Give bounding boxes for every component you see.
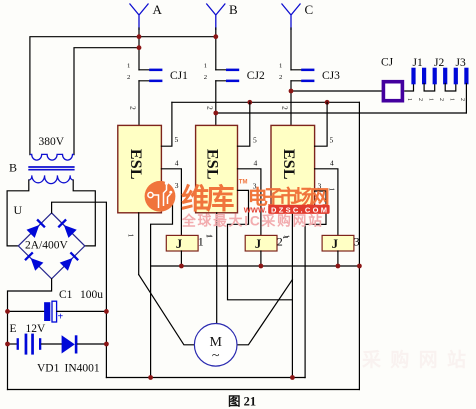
junction dot pin5 bus LSE2 [247,100,252,105]
svg-text:ESL: ESL [127,149,144,180]
svg-text:1: 1 [449,98,455,101]
svg-text:2: 2 [127,74,130,81]
wire J1 bottom [180,251,182,266]
wire rail end up [304,377,306,379]
svg-text:2: 2 [277,235,283,249]
svg-text:3: 3 [354,235,360,249]
svg-text:B: B [229,2,238,17]
svg-text:C: C [305,2,314,17]
bridge diode upper-right [58,220,76,238]
battery E [8,334,62,355]
svg-text:J2: J2 [434,57,444,69]
junction dot battery left [5,342,10,347]
contact J2 [433,68,448,85]
bridge rectifier U diamond [18,213,85,279]
wire J2 bottom [260,251,262,266]
contact J1 [411,68,426,85]
capacitor C1 [8,301,107,322]
capacitor CJ2 [216,69,239,83]
contact J3 [454,68,469,85]
svg-text:IN4001: IN4001 [65,363,100,375]
svg-text:~: ~ [212,349,220,364]
svg-text:1: 1 [427,98,433,101]
junction dot bus J2 [259,264,264,269]
wire J3 bottom [337,251,339,266]
svg-text:图 21: 图 21 [228,395,256,409]
svg-text:1: 1 [198,235,204,249]
svg-text:2: 2 [459,98,465,101]
junction dot B top [213,34,218,39]
wire bridge DC minus [8,279,52,390]
svg-text:全球最大IC采购网站: 全球最大IC采购网站 [181,212,322,228]
junction dot bus J1 [179,264,184,269]
LSE3 pin3 wire wrap [305,191,326,378]
wire second tap to primary right [74,48,139,155]
LSE2 pin4 wire [238,169,261,236]
junction dot diode right [104,342,109,347]
antenna B [206,4,225,31]
wire contact J3 down [465,84,467,114]
LSE3 pin1 wire [291,213,293,378]
svg-text:3: 3 [175,181,179,190]
svg-text:E: E [10,323,17,335]
svg-text:J1: J1 [413,57,423,69]
svg-text:ESL: ESL [280,149,297,180]
junction dot B contact line [213,111,218,116]
svg-text:2A/400V: 2A/400V [25,240,69,252]
svg-text:12V: 12V [26,323,47,335]
contact pin labels [406,98,465,101]
relay J1 [166,235,198,251]
wire motor right diagonal [237,280,293,345]
svg-text:5: 5 [175,135,179,144]
antenna C [282,4,301,31]
wire B riser lower to LSE2 pin2 [215,81,217,126]
junction dot rail LSE1 pin3 [148,375,153,380]
LSE2 pin3 wire wrap [228,190,293,299]
svg-text:2: 2 [205,106,214,110]
wire motor left diagonal [139,275,195,345]
junction dot bus J3 [336,264,341,269]
svg-text:1: 1 [279,63,282,70]
svg-text:5: 5 [330,136,334,145]
wire CJ coil to contact J1 [405,84,414,92]
svg-text:J: J [332,237,338,251]
wire antenna C riser upper [290,28,292,70]
LSE2 pin1 wire to motor [216,213,218,324]
svg-text:4: 4 [175,159,179,168]
junction dot rail LSE3 pin1 [290,375,295,380]
wire DC plus rail [106,377,304,379]
motor M [194,324,237,367]
junction dot C coil line [289,89,294,94]
svg-text:1: 1 [283,235,291,239]
svg-text:2: 2 [204,74,207,81]
svg-text:CJ: CJ [381,57,394,69]
wire contact J2 to J3 [445,84,456,92]
transformer B primary winding [30,154,74,160]
antenna A [130,4,149,31]
junction dot pin5 bus LSE3 [325,100,330,105]
svg-text:2: 2 [417,98,423,101]
svg-text:维库: 维库 [181,184,235,216]
wire secondary left lead [7,180,29,246]
bridge diode upper-left [27,220,45,238]
junction dot A second [137,45,142,50]
junction dot C1 left [5,309,10,314]
svg-text:J3: J3 [456,57,466,69]
LSE1 pin5 wire [161,102,172,146]
wire antenna A riser upper [138,28,140,70]
junction dot A top [137,34,142,39]
svg-text:B: B [9,161,17,175]
wire DC minus rail [8,389,360,391]
svg-text:U: U [14,203,23,217]
svg-text:2: 2 [281,106,290,110]
LSE3 pin5 wire [315,102,328,146]
LSE1 pin1 wire [138,213,140,275]
svg-text:1: 1 [206,235,214,239]
svg-text:CJ3: CJ3 [322,70,340,82]
wire B net to relay contacts [216,112,467,114]
wire contact J1 to J2 [424,84,435,92]
wire pin5 bus horizontal [172,101,360,103]
svg-text:CJ2: CJ2 [247,70,265,82]
op-amp U2 LSE block 2 [196,125,238,212]
bridge diode lower-right [60,252,78,270]
watermark main text [181,180,330,229]
svg-text:A: A [153,2,163,17]
svg-text:1: 1 [127,234,136,238]
svg-text:1: 1 [127,63,130,70]
diode VD1 [62,335,107,353]
wire top bus to primary left [30,37,216,155]
svg-text:J: J [176,237,182,251]
svg-text:100u: 100u [80,289,103,301]
svg-text:VD1: VD1 [37,363,60,375]
relay J3 [322,235,354,251]
LSE2 pin5 wire [238,102,250,146]
wire relay common bus [151,265,360,267]
svg-text:CJ1: CJ1 [170,70,188,82]
wire C riser lower to LSE3 pin2 [290,81,292,126]
svg-text:2: 2 [279,74,282,81]
wire pin5 bus drop right [358,102,360,389]
wire C net to relay coil CJ [291,90,382,92]
wire secondary right lead [73,180,95,246]
capacitor CJ1 [139,69,162,83]
relay J2 [245,235,277,251]
capacitor CJ3 [291,69,314,83]
wire antenna B riser upper [215,28,217,70]
LSE1 pin4 wire [161,169,181,236]
wire bridge DC plus [52,202,107,377]
svg-text:4: 4 [330,159,334,168]
transformer core [28,167,74,170]
svg-text:4: 4 [254,159,258,168]
svg-text:ESL: ESL [203,149,220,180]
svg-text:2: 2 [438,98,444,101]
relay coil CJ [383,82,402,101]
wire A riser lower to LSE1 pin2 [138,81,140,126]
svg-text:C1: C1 [59,289,73,301]
svg-text:TM: TM [239,180,248,186]
svg-text:1: 1 [406,98,412,101]
LSE1 pin3 wire wrap [151,190,173,377]
op-amp U3 LSE block 3 [271,125,315,212]
svg-text:5: 5 [253,136,257,145]
svg-text:+: + [58,312,64,323]
bridge diode lower-left [25,252,43,270]
transformer secondary winding [29,175,73,183]
svg-text:380V: 380V [39,136,65,148]
junction dot bus right [357,264,362,269]
svg-text:2: 2 [129,106,138,110]
svg-text:1: 1 [204,63,207,70]
junction dot C1 right [104,309,109,314]
LSE3 pin4 wire [315,169,338,236]
watermark logo [145,181,176,212]
op-amp U1 LSE block 1 [118,125,162,212]
svg-text:J: J [255,237,261,251]
